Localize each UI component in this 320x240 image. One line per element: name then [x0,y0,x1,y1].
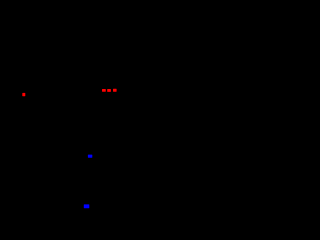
chemical structure rendered on black: only colored atom labels visible [0,0,186,240]
atom N1 (ring nitrogen, blue label, middle) [88,155,92,158]
atom N2 (ring nitrogen, blue label, bottom) [84,204,90,208]
atom O2 (hydroxyl O of OHO cluster, red label) [102,89,106,92]
atom O1 (methoxy oxygen, red label, left) [22,93,25,96]
atom O3 (ketone O of OHO cluster, red label) [113,89,117,92]
atom H (hydroxyl H of OHO cluster, red label) [107,89,111,92]
